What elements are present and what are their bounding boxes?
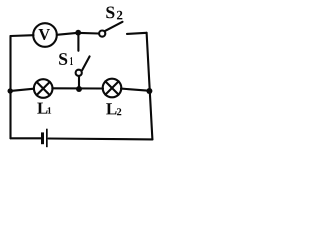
wire left rail to lamp L1 xyxy=(12,89,34,91)
lamp L1 circle xyxy=(34,79,53,98)
wire S2 to top-right corner xyxy=(127,33,147,34)
battery positive plate (long) xyxy=(46,129,48,148)
switch S2 blade xyxy=(105,22,123,31)
wire top-left horizontal xyxy=(11,34,34,37)
lamp L1 cross stroke 2 xyxy=(37,82,50,95)
switch S1 pivot circle xyxy=(76,70,82,76)
node D junction dot on right rail xyxy=(146,88,152,94)
label S1 subscript 1 xyxy=(70,57,73,65)
switch S2 pivot circle xyxy=(99,30,105,36)
voltmeter V circle xyxy=(33,23,57,47)
label S1 letter S xyxy=(59,53,67,65)
wire voltmeter to node A xyxy=(57,33,78,35)
label L2 subscript 2 xyxy=(117,108,121,115)
label S2 subscript 2 xyxy=(117,11,122,20)
switch S1 blade xyxy=(82,56,90,70)
label S2 letter S xyxy=(106,6,114,18)
wire node A to switch S2 xyxy=(80,32,99,35)
label L1 letter L xyxy=(37,103,47,114)
voltmeter label V xyxy=(38,29,49,40)
lamp L2 circle xyxy=(103,79,122,98)
wire lamp L2 to right rail xyxy=(121,89,149,91)
right rail wire xyxy=(147,33,153,140)
wire bottom rail left xyxy=(11,137,42,139)
wire S1 pivot to node B xyxy=(78,76,80,88)
wire bottom rail right xyxy=(49,137,153,140)
lamp L2 cross stroke 1 xyxy=(105,81,118,94)
battery negative plate (short) xyxy=(41,132,44,144)
wire S1 fixed contact from node A xyxy=(77,34,79,51)
label L2 letter L xyxy=(106,103,116,114)
left rail wire xyxy=(9,36,11,138)
node C junction dot on left rail xyxy=(8,88,13,93)
label L1 subscript 1 xyxy=(48,107,52,113)
node A junction dot xyxy=(75,30,81,36)
lamp L1 cross stroke 1 xyxy=(37,82,50,95)
lamp L2 cross stroke 2 xyxy=(105,81,118,94)
wire between lamps xyxy=(52,87,103,89)
node B junction dot (S1 bottom) xyxy=(76,86,82,92)
